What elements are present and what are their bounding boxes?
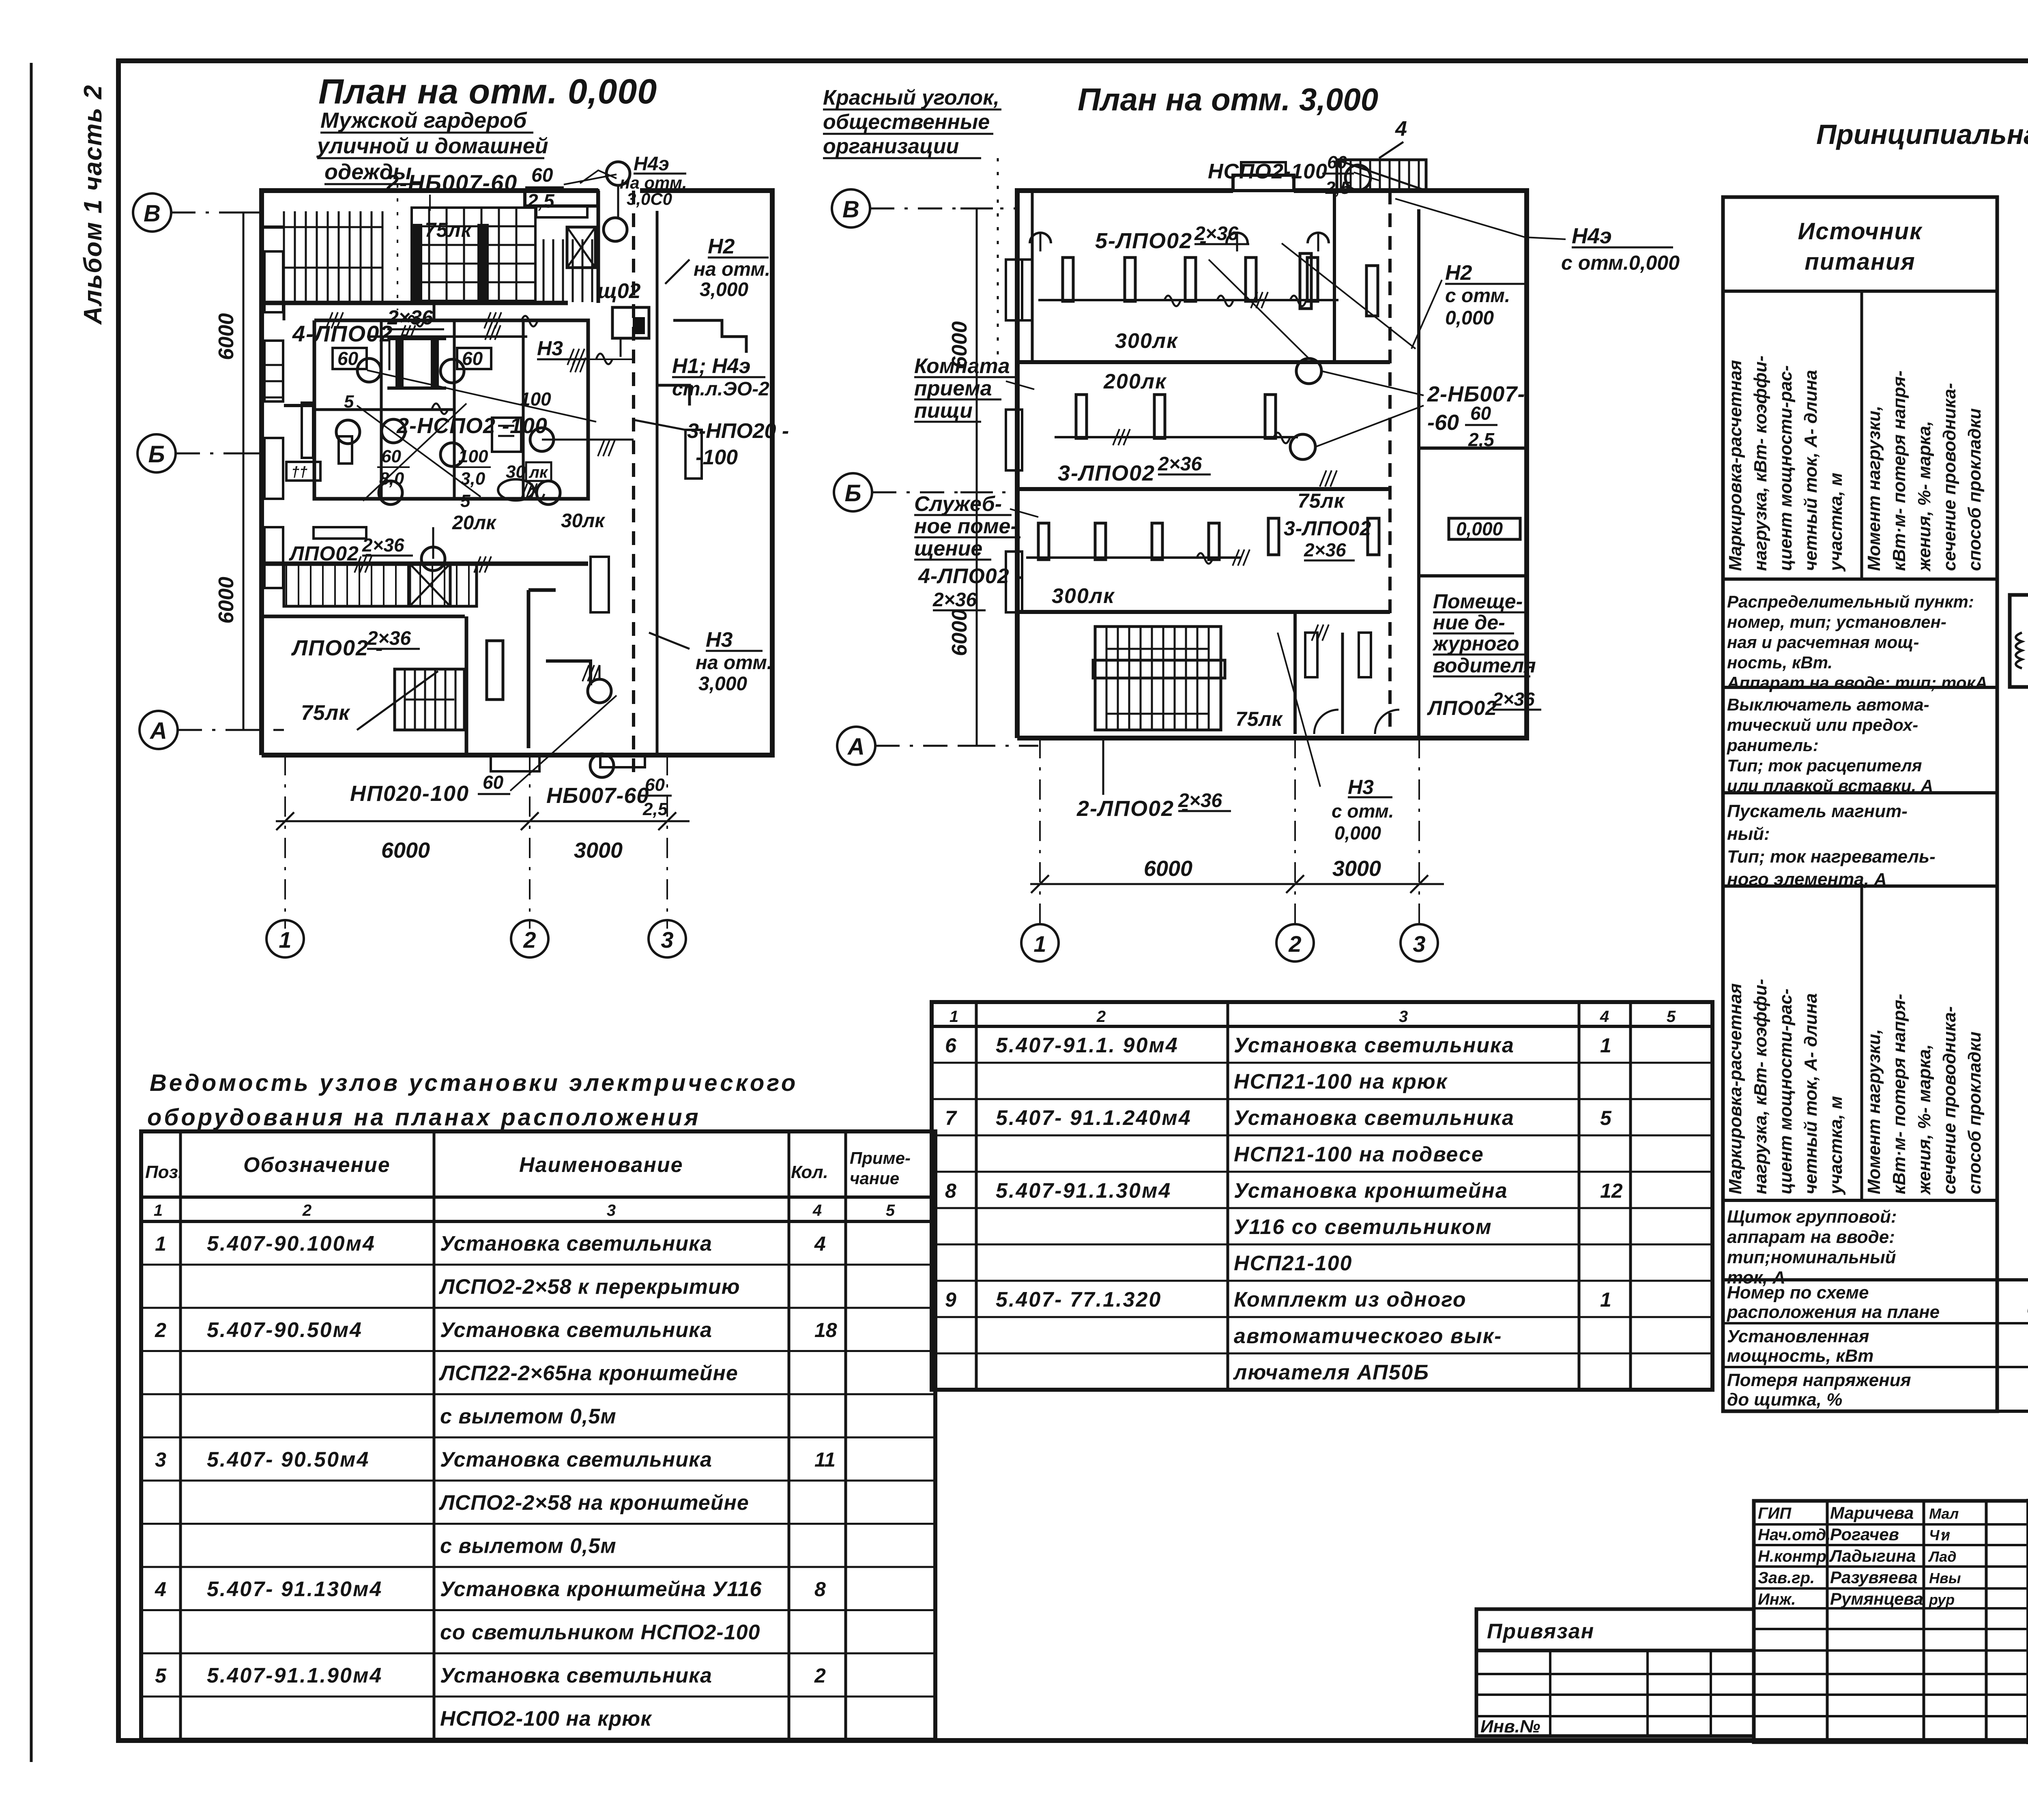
svg-text:НСП21-100: НСП21-100 [1234,1252,1352,1275]
javu box [2010,595,2028,687]
svg-text:2×36: 2×36 [1178,790,1222,811]
svg-text:Ладыгина: Ладыгина [1829,1546,1916,1565]
svg-text:-100: -100 [696,446,738,469]
svg-text:Инв.№: Инв.№ [1480,1717,1540,1736]
svg-text:сечение проводника-: сечение проводника- [1940,383,1959,571]
svg-text:со светильником НСПО2-100: со светильником НСПО2-100 [440,1621,760,1644]
svg-text:Служеб-: Служеб- [914,492,1002,516]
svg-text:5-ЛПО02 -: 5-ЛПО02 - [1095,229,1207,253]
plan2 right room fixtures [1300,253,1311,309]
svg-text:75лк: 75лк [425,219,473,241]
svg-text:2: 2 [1096,1008,1106,1026]
svg-text:с отм.0,000: с отм.0,000 [1561,251,1680,274]
svg-text:Румянцева: Румянцева [1830,1589,1923,1608]
svg-text:Установка светильника: Установка светильника [440,1664,712,1687]
svg-text:Кол.: Кол. [791,1162,828,1182]
svg-text:3: 3 [661,927,673,953]
plan2 building outer walls [1017,191,1233,738]
svg-text:журного: журного [1432,632,1519,655]
plan1 locker rect corridor [591,557,609,612]
plan1 corridor cross box [410,564,450,606]
svg-text:НБ007-60: НБ007-60 [546,783,649,808]
plan1 door sill marks [283,303,286,320]
plan1 crossing leader lines [357,406,481,497]
svg-text:4: 4 [814,1232,826,1255]
plan2 mark 0.000 box [1449,518,1520,539]
svg-text:План на отм. 3,000: План на отм. 3,000 [1078,82,1378,117]
plan1 column bar lower [487,641,503,700]
svg-text:4: 4 [155,1578,166,1601]
svg-text:участка, м: участка, м [1826,1096,1846,1195]
plan1 wiring squiggles [408,316,424,326]
plan1 boxed 60 labels [333,348,367,369]
plan2 grid circle Bm [834,473,872,511]
svg-text:тический или предох-: тический или предох- [1727,715,1918,734]
plan1 wardrobe shelf grid A [283,211,285,302]
svg-text:30лк: 30лк [561,510,606,532]
svg-text:1: 1 [1600,1034,1611,1057]
istochnik table outer [1723,197,1997,1411]
svg-text:75лк: 75лк [301,701,350,725]
plan1 small fixtures left wall [266,364,284,366]
plan1 lower corridor walls [262,562,588,566]
svg-text:Распределительный пункт:: Распределительный пункт: [1727,592,1974,611]
svg-text:0,000: 0,000 [1334,822,1381,843]
svg-text:Маркировка-расчетная: Маркировка-расчетная [1725,360,1745,571]
plan1 grid circle Bm [137,434,176,472]
svg-text:Потеря напряжения: Потеря напряжения [1727,1370,1911,1390]
svg-text:питания: питания [1805,249,1915,275]
svg-text:щ02: щ02 [597,279,641,303]
svg-text:А: А [847,734,865,760]
svg-text:3-ЛПО02: 3-ЛПО02 [1058,461,1155,485]
svg-text:Н2: Н2 [708,235,735,258]
svg-text:2-ЛПО02 -: 2-ЛПО02 - [1076,796,1189,821]
istochnik header [1723,290,1997,293]
plan2 column circle 1 [1021,924,1059,962]
plan2 stair block [1095,627,1221,730]
plan2 grid leaders [870,208,1017,210]
svg-text:Н4э: Н4э [634,153,669,175]
plan1 dimension line bottom [276,820,690,822]
svg-text:ЛСПО2-2×58 к перекрытию: ЛСПО2-2×58 к перекрытию [438,1275,740,1299]
plan2 column circle 2 [1276,924,1314,962]
svg-text:Н3: Н3 [706,628,733,652]
svg-text:уличной и домашней: уличной и домашней [316,134,548,158]
plan2 dimension line bottom [1030,883,1444,885]
svg-text:Нвы: Нвы [1929,1570,1961,1586]
svg-text:Разувяева: Разувяева [1830,1568,1918,1587]
svg-text:Мужской гардероб: Мужской гардероб [320,108,527,133]
plan1 entry vestibule [525,191,598,206]
svg-text:Обозначение: Обозначение [243,1153,391,1177]
svg-text:6000: 6000 [1144,856,1192,881]
svg-text:Установка кронштейна: Установка кронштейна [1234,1179,1508,1202]
svg-text:рур: рур [1929,1591,1955,1608]
plan2 lamp circles right [1296,358,1321,384]
svg-text:4: 4 [1600,1008,1609,1026]
svg-text:НСП21-100 на подвесе: НСП21-100 на подвесе [1234,1143,1484,1166]
svg-text:Приме-: Приме- [850,1148,911,1168]
svg-text:Альбом 1 часть 2: Альбом 1 часть 2 [79,84,107,325]
svg-text:6000: 6000 [948,609,971,656]
plan1 column circle 2 [511,920,548,957]
svg-text:способ прокладки: способ прокладки [1965,1032,1985,1194]
svg-text:12: 12 [1600,1179,1623,1202]
svg-text:до щитка, %: до щитка, % [1727,1390,1842,1410]
svg-text:ность, кВт.: ность, кВт. [1727,653,1833,672]
svg-text:60: 60 [462,348,483,369]
titleblock privyazan box [1476,1609,1754,1650]
plan1 column circle 3 [649,920,686,957]
svg-text:Установка светильника: Установка светильника [440,1232,712,1256]
svg-text:Тип; ток расцепителя: Тип; ток расцепителя [1727,756,1922,775]
svg-text:ЛПО02: ЛПО02 [1427,697,1497,719]
svg-text:тип;номинальный: тип;номинальный [1727,1247,1896,1267]
plan2 toilet rooms [1293,612,1297,734]
svg-text:18: 18 [814,1319,837,1341]
svg-text:НП020-100: НП020-100 [350,781,469,806]
svg-text:номер, тип; установлен-: номер, тип; установлен- [1727,612,1946,631]
svg-text:ЛСП22-2×65на кронштейне: ЛСП22-2×65на кронштейне [438,1362,738,1385]
svg-text:8,0: 8,0 [379,469,404,489]
svg-text:Пускатель магнит-: Пускатель магнит- [1727,801,1908,821]
svg-text:3,0C0: 3,0C0 [627,189,672,208]
plan1 building outer walls [262,191,598,755]
plan2 column circle 3 [1401,924,1438,962]
svg-text:ГИП: ГИП [1758,1505,1792,1522]
svg-text:2×36: 2×36 [367,628,411,649]
power table grid [1723,1278,2028,1281]
plan2 internal wall row3 [1017,610,1390,614]
svg-text:6000: 6000 [215,577,238,624]
svg-text:ранитель:: ранитель: [1727,736,1819,755]
plan1 shelf small rect [314,527,366,539]
svg-text:4-ЛПО02 -: 4-ЛПО02 - [918,564,1023,588]
svg-text:А: А [149,718,167,744]
svg-text:Номер по схеме: Номер по схеме [1727,1283,1869,1303]
svg-text:0,000: 0,000 [1445,307,1494,329]
svg-text:4: 4 [812,1202,822,1219]
plan1 wing niche [673,320,746,353]
svg-text:пищи: пищи [914,399,973,423]
svg-text:приема: приема [914,377,992,400]
svg-text:или плавкой вставки, А: или плавкой вставки, А [1727,776,1933,795]
plan1 wiring lines [367,335,527,338]
svg-text:300лк: 300лк [1115,329,1178,353]
istochnik rotated block2 divider [1860,886,1863,1200]
svg-text:60: 60 [381,446,401,466]
svg-text:11: 11 [814,1449,836,1471]
svg-text:7: 7 [945,1107,957,1129]
svg-text:††: †† [291,464,307,480]
plan1 hatch ticks wiring [400,325,406,340]
svg-text:4: 4 [1395,117,1407,141]
svg-text:60: 60 [337,348,359,369]
svg-text:3,000: 3,000 [698,673,747,695]
svg-text:2×36: 2×36 [932,589,977,611]
svg-text:100: 100 [458,446,488,466]
svg-text:Рогачев: Рогачев [1830,1525,1899,1544]
plan2 fixtures row1 [1063,258,1073,301]
svg-text:циент мощности-рас-: циент мощности-рас- [1776,989,1796,1194]
plan1 wardrobe shelf grid B [412,208,535,301]
svg-text:5.407-90.100м4: 5.407-90.100м4 [207,1232,376,1256]
svg-text:5.407-91.1.30м4: 5.407-91.1.30м4 [996,1179,1171,1202]
svg-text:Момент нагрузки,: Момент нагрузки, [1864,1029,1884,1194]
plan2 tick marks [1251,292,1257,308]
svg-text:Инж.: Инж. [1758,1590,1796,1608]
svg-text:циент мощности-рас-: циент мощности-рас- [1776,365,1796,571]
svg-text:ЛСПО2-2×58 на кронштейне: ЛСПО2-2×58 на кронштейне [438,1491,749,1515]
plan1 corridor hatch strip [284,564,477,606]
plan1 upper wall extra [262,225,284,229]
svg-text:оборудования на планах располо: оборудования на планах расположения [147,1104,701,1131]
plan1 grid leader lines [171,212,262,214]
svg-text:Н3: Н3 [537,337,563,360]
plan1 bottom wall door steps [491,755,539,771]
svg-text:на отм.: на отм. [696,652,772,674]
svg-text:5: 5 [344,392,354,412]
svg-text:5.407-91.1.90м4: 5.407-91.1.90м4 [207,1664,382,1687]
svg-text:НСП21-100 на крюк: НСП21-100 на крюк [1234,1070,1448,1094]
svg-text:Тип; ток нагреватель-: Тип; ток нагреватель- [1727,847,1936,867]
svg-text:5: 5 [1600,1107,1612,1129]
svg-text:Н.контр: Н.контр [1758,1547,1826,1565]
plan1 roof lamp leader [617,185,619,219]
svg-text:5: 5 [1667,1008,1676,1026]
plan2 internal wall row1 [1017,360,1390,364]
svg-text:2×36: 2×36 [1194,223,1238,245]
svg-text:Чห: Чห [1929,1527,1950,1543]
svg-text:ст.л.ЭО-2: ст.л.ЭО-2 [672,378,769,400]
svg-text:75лк: 75лк [1298,489,1345,512]
svg-text:нагрузка, кВт- коэффи-: нагрузка, кВт- коэффи- [1751,356,1770,571]
svg-text:ный:: ный: [1727,824,1770,844]
svg-text:60: 60 [645,775,665,795]
plan1 tick marks [326,312,333,328]
svg-text:Помеще-: Помеще- [1433,590,1523,613]
svg-text:1: 1 [1033,931,1046,957]
svg-text:Н4э: Н4э [1572,224,1612,248]
plan2 grid circle B [832,189,870,227]
svg-text:Б: Б [844,480,861,507]
svg-text:кВт·м- потеря напря-: кВт·м- потеря напря- [1889,371,1909,571]
svg-text:6: 6 [945,1034,957,1057]
plan1 column circle 1 [266,920,304,957]
svg-text:3000: 3000 [574,838,623,863]
plan2 room divider right [1333,191,1336,362]
svg-text:2,5: 2,5 [642,799,668,819]
svg-text:-60: -60 [1427,410,1459,435]
svg-text:Маричева: Маричева [1830,1503,1914,1522]
svg-text:75лк: 75лк [1235,708,1283,730]
plan2 fixtures row3 [1038,523,1049,560]
svg-text:План на отм. 0,000: План на отм. 0,000 [318,72,657,111]
svg-text:чание: чание [850,1169,899,1188]
svg-text:Наименование: Наименование [519,1153,683,1177]
svg-text:5: 5 [460,491,470,511]
table2 grid [932,1002,1712,1390]
svg-text:6000: 6000 [215,313,238,360]
plan1 bottom room top wall [262,615,465,618]
svg-text:ное поме-: ное поме- [914,515,1018,538]
svg-text:2-НСПО2 -100: 2-НСПО2 -100 [396,414,548,438]
istochnik row vykl [1723,791,1997,794]
svg-text:нагрузка, кВт- коэффи-: нагрузка, кВт- коэффи- [1751,979,1770,1194]
privyazan sub table [1476,1650,1754,1736]
svg-text:на отм.: на отм. [694,259,770,280]
svg-text:5.407- 91.130м4: 5.407- 91.130м4 [207,1577,382,1601]
plan2 left pilasters [1006,260,1022,320]
svg-text:Н3: Н3 [1348,776,1374,798]
svg-text:Ведомость узлов установки элек: Ведомость узлов установки электрического [150,1070,798,1096]
svg-text:общественные: общественные [823,110,990,134]
plan1 rack I-beams [395,339,404,388]
svg-text:3: 3 [607,1202,616,1219]
svg-text:Выключатель автома-: Выключатель автома- [1727,695,1929,714]
svg-text:3-НПО20 -: 3-НПО20 - [687,419,789,443]
svg-text:сечение проводника-: сечение проводника- [1940,1006,1959,1194]
svg-text:способ прокладки: способ прокладки [1965,408,1985,571]
svg-text:1: 1 [155,1232,166,1255]
plan1 bottom middle rooms [465,616,468,755]
svg-text:5.407- 77.1.320: 5.407- 77.1.320 [996,1288,1162,1311]
svg-text:Аппарат на вводе: тип; токА: Аппарат на вводе: тип; токА [1727,673,1987,692]
plan2 ceiling hooks row1 [1030,233,1051,243]
svg-text:3: 3 [1399,1008,1408,1026]
plan2 squiggles row1 [1164,296,1180,306]
plan1 grid circle B [133,193,171,232]
svg-text:60: 60 [483,772,504,793]
svg-text:300лк: 300лк [1052,584,1115,608]
svg-text:Б: Б [148,441,165,468]
plan2 grid circle A [837,727,875,765]
istochnik row rasppunkt [1723,686,1997,689]
svg-text:20лк: 20лк [452,512,497,534]
plan2 fixtures row2 [1076,395,1087,438]
svg-text:водителя: водителя [1433,654,1536,677]
svg-text:ная и расчетная мощ-: ная и расчетная мощ- [1727,633,1919,652]
svg-text:В: В [842,196,859,223]
plan1 lamp circles [357,358,381,382]
svg-text:Щиток групповой:: Щиток групповой: [1727,1207,1897,1227]
plan2 top right stair hatch [1337,160,1426,191]
svg-text:расположения на плане: расположения на плане [1727,1302,1940,1322]
svg-text:кВт·м- потеря напря-: кВт·м- потеря напря- [1889,994,1909,1194]
svg-text:2,5: 2,5 [527,191,555,212]
plan2 corridor dashed [1388,191,1392,738]
plan2 top wall window lines [1031,191,1034,362]
svg-text:Поз.: Поз. [145,1162,183,1182]
svg-text:2×36: 2×36 [362,534,404,556]
svg-text:5.407-91.1. 90м4: 5.407-91.1. 90м4 [996,1034,1179,1057]
svg-text:четный ток, А- длина: четный ток, А- длина [1801,993,1821,1194]
svg-text:Маркировка-расчетная: Маркировка-расчетная [1725,983,1745,1194]
istochnik row puskatel [1723,884,1997,888]
svg-text:Лад: Лад [1928,1548,1956,1565]
svg-text:НСПО2-100 на крюк: НСПО2-100 на крюк [440,1707,652,1731]
svg-text:5: 5 [155,1664,167,1687]
svg-text:2: 2 [1288,931,1301,957]
svg-text:ние де-: ние де- [1433,611,1505,634]
svg-text:Привязан: Привязан [1487,1620,1594,1643]
svg-text:Источник: Источник [1798,218,1923,245]
plan2 internal wall row2 [1017,487,1390,491]
svg-text:Комната: Комната [914,354,1010,378]
svg-text:Красный уголок,: Красный уголок, [823,86,999,109]
plan1 lamp stem marks [599,665,601,679]
svg-text:2×36: 2×36 [1158,453,1202,475]
plan1 left wall pilasters [264,251,283,312]
svg-text:В: В [144,200,161,227]
signature table [1754,1501,2028,1742]
svg-text:5.407- 91.1.240м4: 5.407- 91.1.240м4 [996,1106,1192,1130]
svg-text:с вылетом 0,5м: с вылетом 0,5м [440,1535,617,1558]
istochnik rotated col divider 1 [1860,291,1863,579]
plan2 left dimension line [976,208,978,746]
plan1 wardrobe right hatch [543,239,545,302]
svg-text:1: 1 [154,1202,163,1219]
svg-text:щение: щение [914,537,982,560]
plan1 bottom stair [395,669,464,730]
plan1 right wing inner wall [656,211,659,755]
svg-text:участка, м: участка, м [1826,473,1846,572]
plan1 left dimension line [243,212,245,730]
svg-text:Н2: Н2 [1445,261,1472,285]
svg-text:3000: 3000 [1332,856,1381,881]
svg-text:3: 3 [155,1449,166,1471]
svg-text:8: 8 [945,1179,956,1202]
plan1 grid circle A [140,711,178,749]
svg-text:2,5: 2,5 [1468,429,1495,450]
svg-text:2: 2 [523,927,536,953]
svg-text:60: 60 [1470,403,1491,424]
plan2 right wing wall [1417,209,1420,738]
svg-text:лк: лк [528,464,548,481]
svg-text:аппарат на вводе:: аппарат на вводе: [1727,1227,1895,1247]
plan1 corridor dashed line [632,191,635,773]
svg-text:Установка светильника: Установка светильника [440,1448,712,1472]
plan1 wardrobe bottom wall [262,301,568,305]
svg-text:2: 2 [155,1319,166,1341]
svg-text:5.407-90.50м4: 5.407-90.50м4 [207,1318,363,1342]
svg-text:1: 1 [950,1008,958,1026]
svg-text:3-ЛПО02: 3-ЛПО02 [1284,517,1371,540]
plan1 middle room walls [314,320,588,499]
svg-text:организации: организации [823,135,959,158]
svg-text:Комплект из одного: Комплект из одного [1234,1288,1467,1311]
svg-text:четный ток, А- длина: четный ток, А- длина [1801,370,1821,571]
vedomost table grid [141,1131,935,1740]
svg-text:2: 2 [302,1202,312,1219]
svg-text:мощность, кВт: мощность, кВт [1727,1346,1873,1366]
svg-text:Зав.гр.: Зав.гр. [1758,1569,1815,1587]
svg-text:8: 8 [814,1578,826,1601]
svg-text:2: 2 [814,1664,826,1687]
svg-text:жения, %- марка,: жения, %- марка, [1914,421,1934,572]
svg-text:3,0: 3,0 [460,469,486,489]
plan1 door posts top [412,225,421,302]
svg-text:лючателя АП50Б: лючателя АП50Б [1233,1361,1429,1384]
plan2 entry canopy [1233,175,1294,191]
svg-text:с отм.: с отм. [1445,285,1510,307]
svg-text:2×36: 2×36 [1492,689,1535,710]
svg-text:Установка кронштейна У116: Установка кронштейна У116 [440,1577,762,1601]
svg-text:Мал: Мал [1929,1505,1959,1522]
svg-text:Установка светильника: Установка светильника [1234,1034,1515,1057]
svg-text:с вылетом 0,5м: с вылетом 0,5м [440,1405,617,1428]
